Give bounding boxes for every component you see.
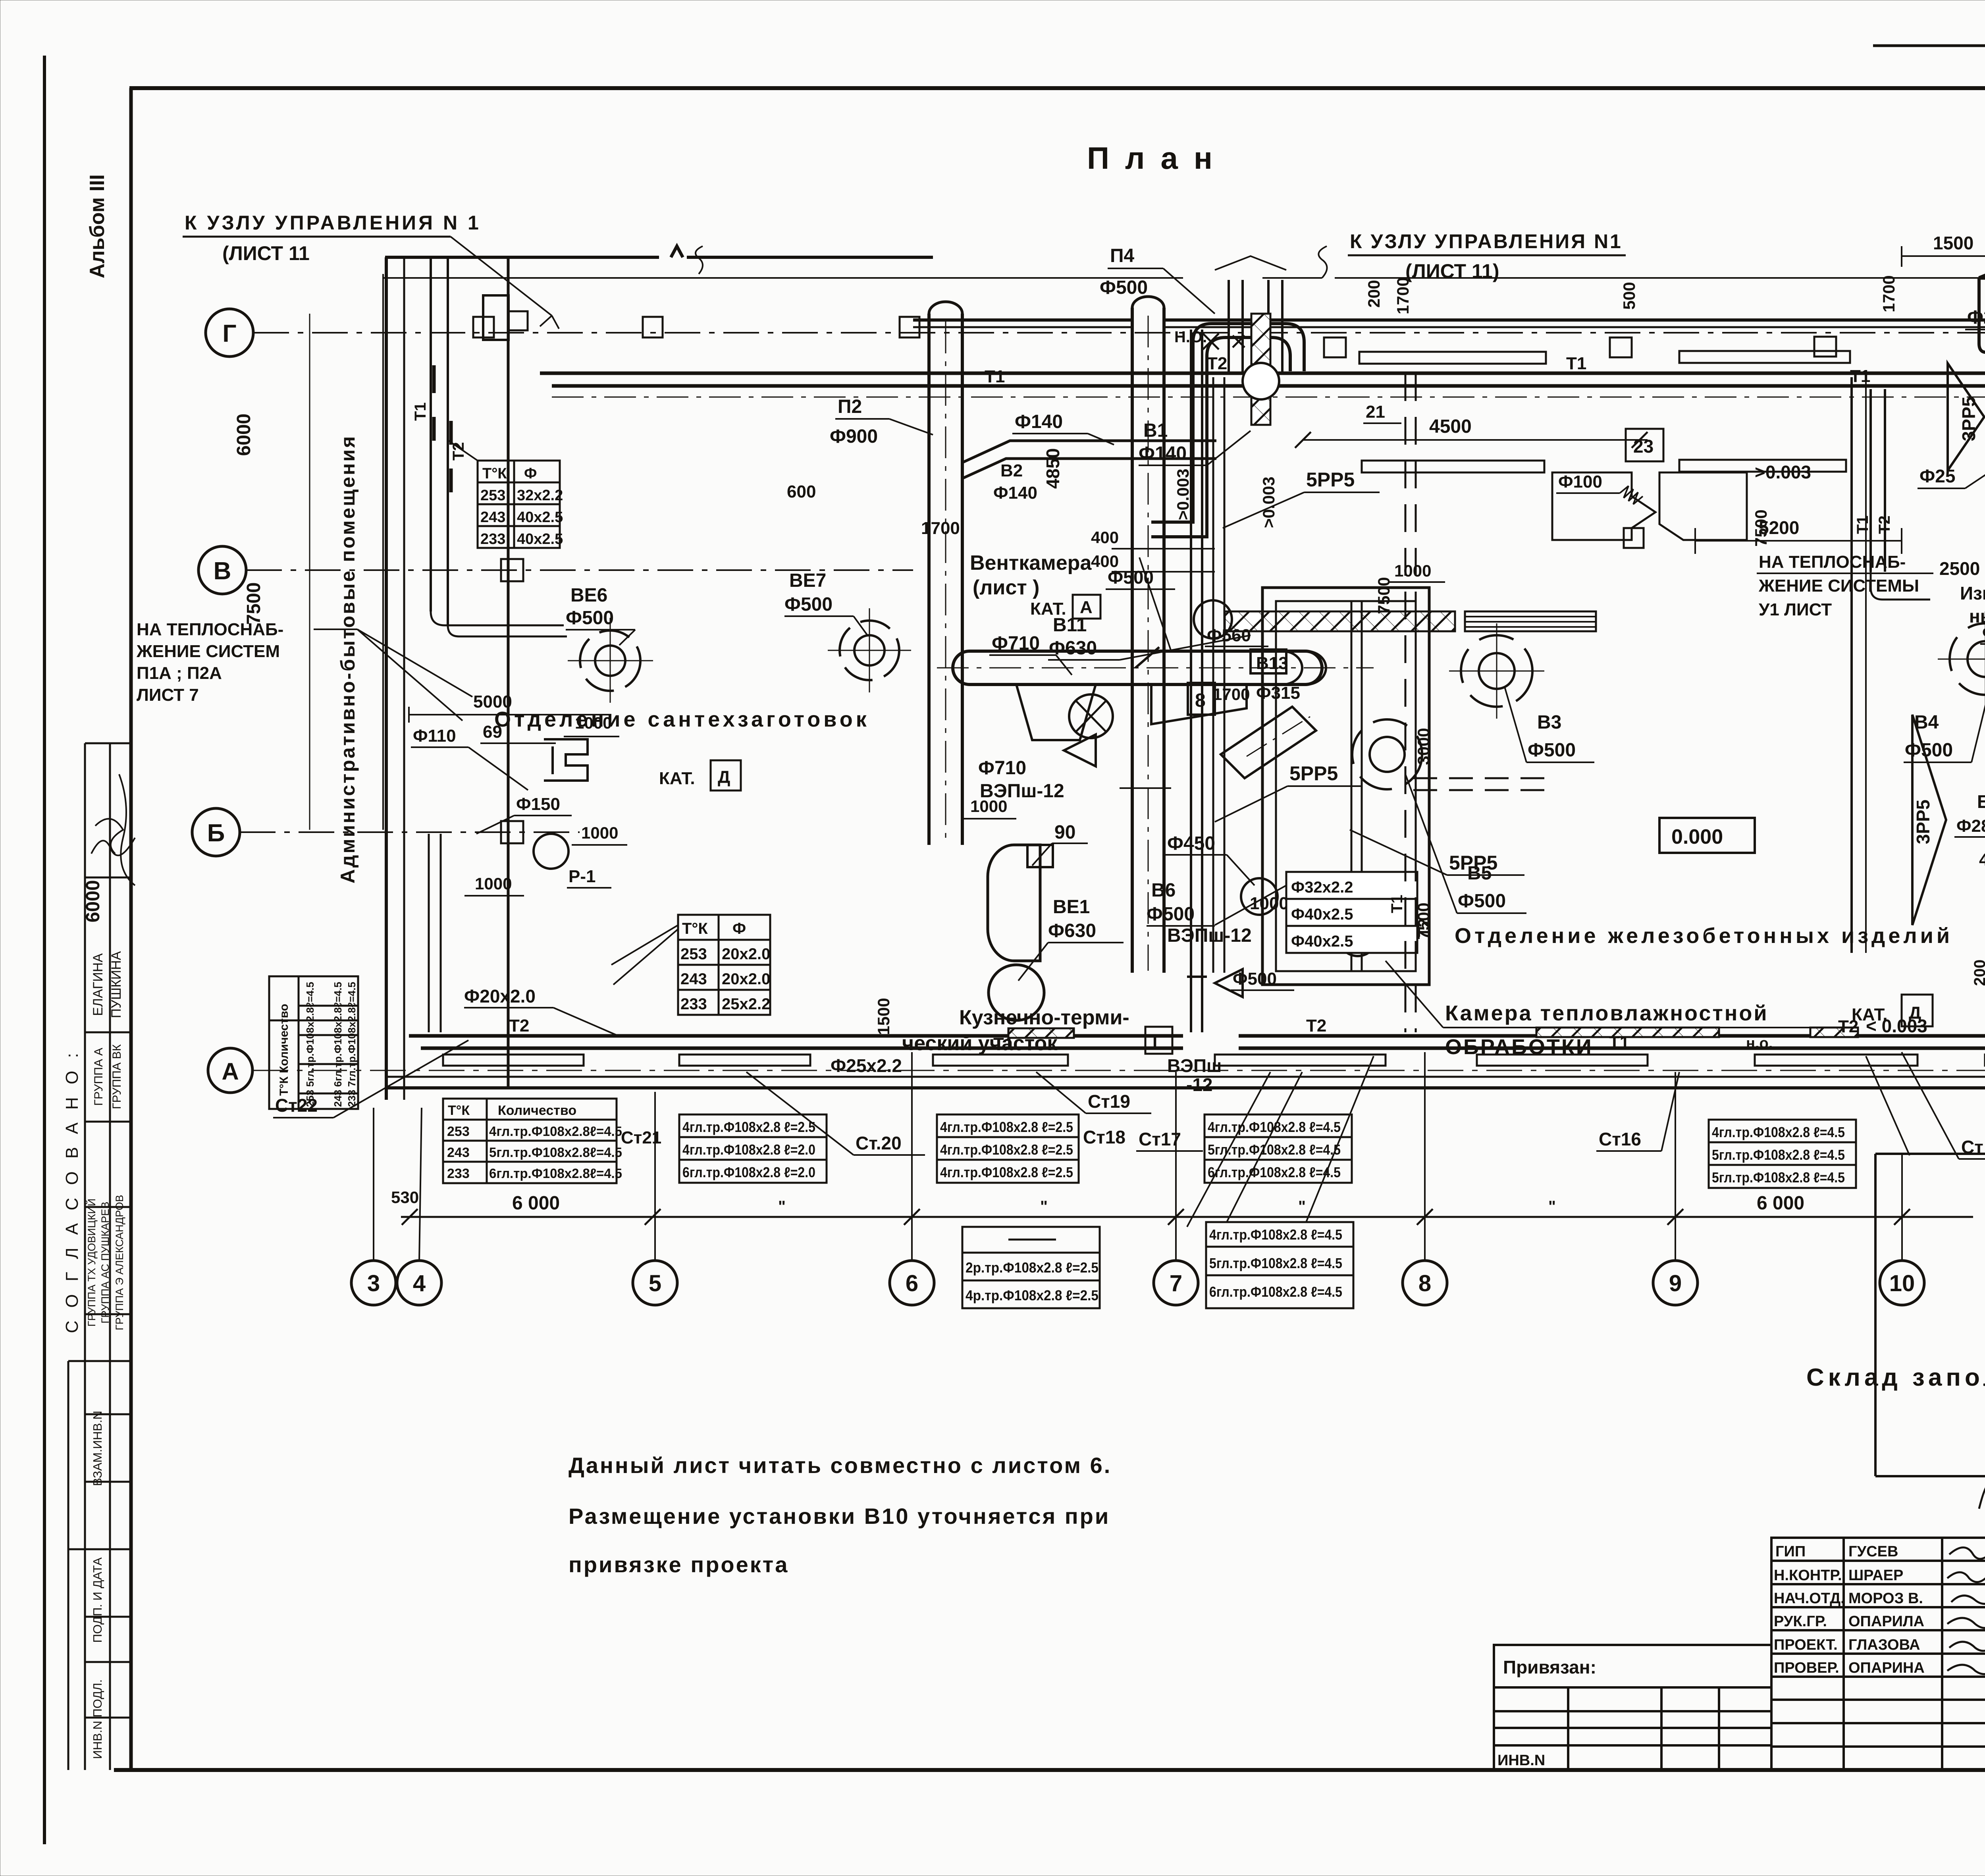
svg-text:Ст 15: Ст 15 bbox=[1961, 1137, 1985, 1157]
axis Б bbox=[192, 808, 240, 856]
V1 elbow pipe bbox=[1151, 324, 1304, 522]
svg-text:ПРОВЕР.: ПРОВЕР. bbox=[1774, 1660, 1839, 1676]
svg-text:НА ТЕПЛОСНАБ-: НА ТЕПЛОСНАБ- bbox=[137, 620, 283, 639]
svg-text:6гл.тр.Ф108х2.8 ℓ=4.5: 6гл.тр.Ф108х2.8 ℓ=4.5 bbox=[1209, 1284, 1342, 1300]
svg-text:Ф900: Ф900 bbox=[830, 426, 878, 447]
svg-text:ПОДП. И ДАТА: ПОДП. И ДАТА bbox=[91, 1557, 104, 1643]
svg-text:": " bbox=[1040, 1198, 1048, 1215]
svg-text:Ф450: Ф450 bbox=[1167, 833, 1215, 854]
svg-text:Ф500: Ф500 bbox=[1100, 277, 1148, 298]
svg-text:Т1: Т1 bbox=[985, 367, 1005, 386]
svg-text:Известегаситель-: Известегаситель- bbox=[1960, 583, 1985, 603]
svg-text:0.000: 0.000 bbox=[1671, 825, 1723, 848]
svg-text:8: 8 bbox=[1195, 690, 1206, 711]
svg-text:П4: П4 bbox=[1110, 245, 1135, 266]
svg-text:5000: 5000 bbox=[473, 692, 512, 711]
stamp signatures scribbles bbox=[91, 774, 135, 885]
svg-text:Венткамера: Венткамера bbox=[970, 551, 1092, 575]
svg-text:233: 233 bbox=[480, 531, 505, 548]
svg-text:П1А ; П2А: П1А ; П2А bbox=[137, 663, 222, 683]
table st20 bbox=[679, 1114, 827, 1183]
sheet inner frame bottom bbox=[114, 1768, 1985, 1772]
svg-text:>0.003: >0.003 bbox=[1174, 469, 1192, 520]
svg-text:1000: 1000 bbox=[581, 823, 618, 842]
svg-text:20х2.0: 20х2.0 bbox=[722, 970, 770, 988]
svg-text:7: 7 bbox=[1170, 1271, 1182, 1296]
table below st17 bbox=[1206, 1222, 1353, 1308]
axis circles bottom bbox=[351, 1261, 1924, 1305]
svg-text:КАТ.: КАТ. bbox=[1852, 1005, 1888, 1024]
svg-text:233: 233 bbox=[680, 995, 707, 1013]
svg-text:ЕЛАГИНА: ЕЛАГИНА bbox=[91, 953, 106, 1016]
wall right vertical bbox=[1850, 377, 1853, 953]
svg-text:Ф280: Ф280 bbox=[1967, 307, 1985, 328]
bottom radiators bbox=[443, 1055, 584, 1066]
building left wall bbox=[385, 257, 388, 1100]
svg-text:Т°К: Т°К bbox=[482, 465, 507, 482]
svg-text:5гл.тр.Ф108х2.8ℓ=4.5: 5гл.тр.Ф108х2.8ℓ=4.5 bbox=[489, 1145, 622, 1160]
svg-text:Г: Г bbox=[1152, 1032, 1162, 1051]
svg-text:Ф140: Ф140 bbox=[993, 483, 1037, 503]
axis leader lines bbox=[374, 1052, 1902, 1261]
svg-text:Н.О.: Н.О. bbox=[1174, 328, 1207, 346]
svg-text:1700: 1700 bbox=[1213, 685, 1250, 704]
0.000 box bbox=[1659, 818, 1755, 853]
vertical extension lines at left dims bbox=[309, 314, 310, 830]
table TK F 32x2.2 bbox=[478, 461, 560, 548]
svg-text:530: 530 bbox=[391, 1188, 419, 1207]
svg-text:3РР5: 3РР5 bbox=[1913, 800, 1933, 844]
svg-text:ЖЕНИЕ СИСТЕМЫ: ЖЕНИЕ СИСТЕМЫ bbox=[1758, 576, 1919, 596]
svg-text:8: 8 bbox=[1418, 1271, 1431, 1296]
svg-text:6гл.тр.Ф108х2.8ℓ=4.5: 6гл.тр.Ф108х2.8ℓ=4.5 bbox=[489, 1166, 622, 1181]
svg-text:Ф32х2.2: Ф32х2.2 bbox=[1291, 879, 1353, 896]
svg-text:КАТ.: КАТ. bbox=[659, 769, 695, 788]
svg-text:4850: 4850 bbox=[1043, 448, 1063, 489]
svg-text:В5: В5 bbox=[1467, 863, 1492, 884]
svg-text:Бетоносмеситель-: Бетоносмеситель- bbox=[1977, 791, 1985, 812]
svg-text:Ст22: Ст22 bbox=[275, 1095, 318, 1116]
hatched strips bottom bbox=[1008, 1028, 1074, 1038]
svg-text:Ф150: Ф150 bbox=[516, 794, 560, 814]
funnel below duct bbox=[1016, 684, 1096, 740]
svg-text:ГРУППА ТХ УДОВИЦКИЙ: ГРУППА ТХ УДОВИЦКИЙ bbox=[85, 1199, 98, 1327]
B13 F560 F315 bbox=[1251, 650, 1286, 673]
dashed long pipe mid bbox=[1413, 777, 1548, 779]
cone duct right bbox=[1151, 684, 1247, 724]
svg-text:В13: В13 bbox=[1256, 654, 1288, 673]
svg-text:Ф500: Ф500 bbox=[784, 594, 833, 615]
crane rail segments mid hall bbox=[1362, 461, 1544, 472]
svg-text:40х2.5: 40х2.5 bbox=[517, 509, 563, 526]
svg-text:6 000: 6 000 bbox=[512, 1193, 560, 1214]
svg-text:3000: 3000 bbox=[1414, 728, 1433, 765]
svg-text:Ст18: Ст18 bbox=[1083, 1127, 1125, 1147]
svg-text:ческий участок: ческий участок bbox=[902, 1032, 1058, 1055]
table TK F 20x2.0 bbox=[678, 915, 770, 1015]
svg-text:400: 400 bbox=[1091, 528, 1119, 547]
sheet outer left border bbox=[43, 56, 46, 1844]
svg-text:253: 253 bbox=[680, 945, 707, 963]
svg-text:Т2: Т2 bbox=[1306, 1016, 1326, 1035]
svg-text:В: В bbox=[214, 557, 231, 585]
T1 T2 risers dashed bbox=[1405, 373, 1407, 1032]
svg-text:5гл.тр.Ф108х2.8 ℓ=4.5: 5гл.тр.Ф108х2.8 ℓ=4.5 bbox=[1712, 1147, 1845, 1163]
bottom radiator band T2 T1 bbox=[409, 1034, 1183, 1038]
svg-text:Ф400: Ф400 bbox=[1982, 623, 1985, 642]
svg-text:К УЗЛУ УПРАВЛЕНИЯ N 1: К УЗЛУ УПРАВЛЕНИЯ N 1 bbox=[185, 212, 481, 234]
svg-text:200: 200 bbox=[1971, 960, 1985, 986]
title block: staff table bbox=[1771, 1538, 1985, 1770]
svg-text:ГУСЕВ: ГУСЕВ bbox=[1848, 1543, 1898, 1560]
svg-text:6000: 6000 bbox=[233, 414, 254, 456]
svg-text:1500: 1500 bbox=[874, 998, 893, 1035]
svg-text:Д: Д bbox=[1909, 1003, 1921, 1023]
axis А bbox=[208, 1048, 252, 1093]
svg-text:Т1: Т1 bbox=[1850, 366, 1870, 386]
vertical duct cluster bbox=[1190, 330, 1192, 1032]
svg-text:(лист ): (лист ) bbox=[973, 576, 1039, 599]
svg-text:Г: Г bbox=[222, 320, 236, 347]
svg-text:(ЛИСТ 11: (ЛИСТ 11 bbox=[222, 242, 310, 264]
svg-text:4гл.тр.Ф108х2.8ℓ=4.5: 4гл.тр.Ф108х2.8ℓ=4.5 bbox=[489, 1124, 622, 1139]
svg-text:3: 3 bbox=[367, 1271, 380, 1296]
svg-text:69: 69 bbox=[483, 722, 502, 742]
svg-text:10: 10 bbox=[1889, 1271, 1915, 1296]
svg-text:ИНВ.N: ИНВ.N bbox=[1497, 1752, 1545, 1769]
svg-text:Ф560: Ф560 bbox=[1207, 626, 1251, 645]
svg-text:привязке проекта: привязке проекта bbox=[569, 1552, 789, 1577]
svg-text:253 5гл.тр.Ф108х2.8ℓ=4.5: 253 5гл.тр.Ф108х2.8ℓ=4.5 bbox=[304, 982, 316, 1107]
table st16 bbox=[1204, 1114, 1352, 1183]
svg-text:В3: В3 bbox=[1537, 712, 1561, 733]
svg-text:Ст21: Ст21 bbox=[621, 1128, 661, 1147]
staff signatures bbox=[1947, 1483, 1985, 1674]
svg-text:ИНВ.N ПОДЛ.: ИНВ.N ПОДЛ. bbox=[91, 1679, 104, 1759]
diagonal conveyor bbox=[1221, 707, 1316, 778]
F710 horizontal duct bbox=[953, 651, 1322, 684]
svg-text:1000: 1000 bbox=[575, 713, 612, 732]
svg-text:ОПАРИЛА: ОПАРИЛА bbox=[1848, 1613, 1924, 1630]
svg-text:1700: 1700 bbox=[921, 519, 960, 538]
svg-text:П2: П2 bbox=[838, 396, 862, 417]
sklad room bbox=[1874, 1154, 1877, 1476]
axis В bbox=[198, 546, 246, 594]
svg-text:": " bbox=[1298, 1198, 1306, 1215]
svg-text:21: 21 bbox=[1366, 402, 1385, 422]
svg-text:32х2.2: 32х2.2 bbox=[517, 487, 563, 504]
svg-text:3РР5: 3РР5 bbox=[1958, 397, 1979, 442]
svg-text:6гл.тр.Ф108х2.8 ℓ=2.0: 6гл.тр.Ф108х2.8 ℓ=2.0 bbox=[682, 1164, 815, 1180]
svg-text:Ф100: Ф100 bbox=[1558, 472, 1602, 492]
svg-text:н.о.: н.о. bbox=[1746, 1035, 1773, 1052]
rotated table far left bbox=[269, 976, 358, 1109]
svg-text:Р-1: Р-1 bbox=[569, 867, 595, 886]
svg-text:243: 243 bbox=[480, 509, 505, 526]
upper radiators bbox=[1359, 352, 1546, 364]
svg-text:Привязан:: Привязан: bbox=[1503, 1657, 1596, 1677]
svg-text:6000: 6000 bbox=[83, 880, 104, 923]
svg-text:ВЗАМ.ИНВ.N: ВЗАМ.ИНВ.N bbox=[91, 1411, 104, 1486]
svg-text:4000: 4000 bbox=[1979, 850, 1985, 870]
svg-text:Ф: Ф bbox=[732, 920, 746, 937]
svg-text:А: А bbox=[222, 1058, 239, 1085]
svg-text:Альбом III: Альбом III bbox=[86, 174, 109, 278]
svg-text:>0.003: >0.003 bbox=[1259, 476, 1278, 528]
svg-text:Т1: Т1 bbox=[1854, 515, 1871, 534]
svg-text:Т1: Т1 bbox=[1609, 1033, 1629, 1052]
bottom dimension line bbox=[401, 1216, 1973, 1218]
svg-text:7500: 7500 bbox=[243, 582, 264, 625]
svg-text:1000: 1000 bbox=[475, 874, 512, 893]
svg-text:В6: В6 bbox=[1151, 880, 1176, 901]
duct P2 bbox=[927, 314, 931, 845]
svg-text:Кузнечно-терми-: Кузнечно-терми- bbox=[959, 1006, 1129, 1029]
svg-text:5РР5: 5РР5 bbox=[1306, 469, 1355, 491]
svg-text:2500: 2500 bbox=[1939, 558, 1980, 579]
svg-text:5: 5 bbox=[649, 1271, 661, 1296]
svg-text:ВЕ7: ВЕ7 bbox=[789, 570, 826, 591]
svg-text:Ф500: Ф500 bbox=[1458, 891, 1506, 912]
svg-text:253: 253 bbox=[480, 487, 505, 504]
svg-text:1700: 1700 bbox=[1393, 277, 1412, 314]
table st18 bbox=[937, 1114, 1079, 1183]
svg-text:Ст16: Ст16 bbox=[1599, 1129, 1641, 1149]
svg-text:1700: 1700 bbox=[1879, 275, 1898, 312]
svg-text:4гл.тр.Ф108х2.8 ℓ=2.5: 4гл.тр.Ф108х2.8 ℓ=2.5 bbox=[940, 1119, 1073, 1135]
svg-text:Количество: Количество bbox=[498, 1103, 576, 1118]
svg-text:(ЛИСТ 11): (ЛИСТ 11) bbox=[1405, 260, 1499, 282]
svg-text:7500: 7500 bbox=[1752, 509, 1770, 546]
svg-text:Ф40х2.5: Ф40х2.5 bbox=[1291, 933, 1353, 950]
svg-text:Административно-бытовые помещ: Административно-бытовые помещения bbox=[337, 435, 359, 884]
svg-text:Т°К: Т°К bbox=[682, 920, 708, 937]
hall big circles B3 B4 B5 bbox=[1461, 635, 1532, 707]
svg-text:НАЧ.ОТД.: НАЧ.ОТД. bbox=[1774, 1590, 1845, 1607]
svg-text:Ф280: Ф280 bbox=[1956, 816, 1985, 836]
svg-text:ЛИСТ 7: ЛИСТ 7 bbox=[137, 685, 199, 705]
svg-text:ГИП: ГИП bbox=[1775, 1543, 1806, 1560]
svg-text:25х2.2: 25х2.2 bbox=[722, 995, 770, 1013]
admin partition wall bbox=[507, 257, 510, 1088]
3RR5 cone 1 bbox=[1948, 363, 1984, 470]
F140 duct left from P2 bbox=[962, 441, 1216, 463]
svg-text:Т2: Т2 bbox=[509, 1016, 529, 1035]
svg-text:Ст19: Ст19 bbox=[1088, 1091, 1130, 1112]
svg-text:ГЛАЗОВА: ГЛАЗОВА bbox=[1848, 1637, 1920, 1653]
vent unit 90 / VE1 bbox=[988, 845, 1040, 961]
svg-text:40х2.5: 40х2.5 bbox=[517, 531, 563, 548]
svg-text:Т°К: Т°К bbox=[448, 1103, 470, 1118]
svg-text:20х2.0: 20х2.0 bbox=[722, 945, 770, 963]
kamera teplovlazhnostnoy box bbox=[1262, 588, 1429, 985]
svg-text:ОПАРИНА: ОПАРИНА bbox=[1848, 1660, 1925, 1676]
svg-text:Ф140: Ф140 bbox=[1015, 411, 1063, 432]
svg-text:Ф25х2.2: Ф25х2.2 bbox=[831, 1055, 902, 1076]
svg-text:Отделение железобетонных изд: Отделение железобетонных изделий bbox=[1455, 924, 1953, 948]
building top wall bbox=[385, 246, 933, 257]
wall column marks bbox=[473, 317, 494, 337]
svg-text:ЖЕНИЕ СИСТЕМ: ЖЕНИЕ СИСТЕМ bbox=[136, 642, 280, 661]
3RR5 cone 2 bbox=[1912, 715, 1946, 925]
svg-text:Б: Б bbox=[207, 819, 225, 847]
svg-text:ВЕ1: ВЕ1 bbox=[1053, 897, 1090, 918]
svg-text:4гл.тр.Ф108х2.8 ℓ=4.5: 4гл.тр.Ф108х2.8 ℓ=4.5 bbox=[1209, 1226, 1342, 1243]
svg-text:Ф710: Ф710 bbox=[978, 758, 1026, 779]
table F32x2.2 inside kamera bbox=[1286, 872, 1417, 953]
svg-text:1000: 1000 bbox=[1250, 894, 1289, 913]
svg-text:243: 243 bbox=[447, 1145, 470, 1160]
svg-text:РУК.ГР.: РУК.ГР. bbox=[1774, 1613, 1827, 1630]
svg-text:НА ТЕПЛОСНАБ-: НА ТЕПЛОСНАБ- bbox=[1759, 552, 1906, 572]
svg-text:Ф500: Ф500 bbox=[1147, 904, 1195, 925]
svg-text:5гл.тр.Ф108х2.8 ℓ=4.5: 5гл.тр.Ф108х2.8 ℓ=4.5 bbox=[1712, 1169, 1845, 1186]
svg-text:6 000: 6 000 bbox=[1757, 1193, 1804, 1214]
svg-text:4500: 4500 bbox=[1429, 416, 1472, 437]
svg-text:1000: 1000 bbox=[970, 797, 1007, 816]
svg-text:1500: 1500 bbox=[1933, 233, 1973, 253]
bottom wall lines bbox=[386, 1076, 1985, 1078]
svg-text:ВЭПш-12: ВЭПш-12 bbox=[1167, 925, 1252, 946]
svg-text:243: 243 bbox=[680, 970, 707, 988]
svg-text:253: 253 bbox=[447, 1124, 470, 1139]
svg-text:ГРУППА А: ГРУППА А bbox=[92, 1048, 105, 1106]
left stamp column lines bbox=[68, 743, 131, 1770]
svg-text:ПУШКИНА: ПУШКИНА bbox=[109, 951, 124, 1018]
axis Г bbox=[206, 309, 253, 357]
svg-text:6гл.тр.Ф108х2.8 ℓ=4.5: 6гл.тр.Ф108х2.8 ℓ=4.5 bbox=[1208, 1164, 1341, 1180]
svg-text:Камера тепловлажностной: Камера тепловлажностной bbox=[1445, 1001, 1769, 1025]
svg-text:243 6гл.тр.Ф108х2.8ℓ=4.5: 243 6гл.тр.Ф108х2.8ℓ=4.5 bbox=[332, 982, 344, 1107]
svg-text:Ф710: Ф710 bbox=[992, 633, 1040, 654]
svg-text:Склад заполнителей: Склад заполнителей bbox=[1806, 1364, 1985, 1391]
title block: privyazan box bbox=[1494, 1645, 1771, 1770]
svg-text:Ф40х2.5: Ф40х2.5 bbox=[1291, 906, 1353, 923]
svg-text:В11: В11 bbox=[1053, 615, 1087, 636]
svg-text:5гл.тр.Ф108х2.8 ℓ=4.5: 5гл.тр.Ф108х2.8 ℓ=4.5 bbox=[1208, 1141, 1341, 1158]
svg-text:Т1: Т1 bbox=[412, 402, 429, 421]
top heat mains T2 T1 bbox=[540, 372, 1985, 375]
svg-text:500: 500 bbox=[1620, 282, 1638, 310]
svg-text:23: 23 bbox=[1633, 436, 1654, 457]
svg-text:Ф: Ф bbox=[524, 465, 537, 482]
svg-text:4гл.тр.Ф108х2.8 ℓ=2.5: 4гл.тр.Ф108х2.8 ℓ=2.5 bbox=[682, 1119, 815, 1135]
svg-text:Т°К Количество: Т°К Количество bbox=[278, 1004, 291, 1096]
svg-text:600: 600 bbox=[787, 482, 816, 501]
svg-text:ГРУППА Э АЛЕКСАНДРОВ: ГРУППА Э АЛЕКСАНДРОВ bbox=[114, 1195, 125, 1330]
svg-text:К УЗЛУ УПРАВЛЕНИЯ N1: К УЗЛУ УПРАВЛЕНИЯ N1 bbox=[1350, 230, 1623, 253]
svg-text:": " bbox=[1548, 1198, 1556, 1215]
svg-text:ГРУППА АС ПУШКАРЕВ: ГРУППА АС ПУШКАРЕВ bbox=[99, 1202, 111, 1324]
svg-text:Данный лист читать совместн: Данный лист читать совместно с листом 6. bbox=[569, 1453, 1112, 1478]
svg-text:7500: 7500 bbox=[1414, 902, 1433, 939]
top right edge line bbox=[1873, 44, 1985, 47]
svg-text:Ф630: Ф630 bbox=[1048, 920, 1096, 941]
svg-text:4гл.тр.Ф108х2.8 ℓ=4.5: 4гл.тр.Ф108х2.8 ℓ=4.5 bbox=[1712, 1124, 1845, 1140]
svg-text:5гл.тр.Ф108х2.8 ℓ=4.5: 5гл.тр.Ф108х2.8 ℓ=4.5 bbox=[1209, 1255, 1342, 1271]
svg-text:ГРУППА ВК: ГРУППА ВК bbox=[110, 1044, 123, 1109]
horizontal line to top center bbox=[383, 277, 1183, 279]
svg-text:Ф500: Ф500 bbox=[1108, 567, 1154, 588]
svg-text:4р.тр.Ф108х2.8 ℓ=2.5: 4р.тр.Ф108х2.8 ℓ=2.5 bbox=[966, 1287, 1098, 1303]
svg-text:ПРОЕКТ.: ПРОЕКТ. bbox=[1774, 1637, 1838, 1653]
svg-text:": " bbox=[778, 1198, 786, 1215]
svg-text:90: 90 bbox=[1054, 822, 1075, 843]
svg-text:4: 4 bbox=[413, 1271, 426, 1296]
riser group top center bbox=[1228, 280, 1230, 373]
svg-text:МОРОЗ В.: МОРОЗ В. bbox=[1848, 1590, 1923, 1607]
svg-text:Ф110: Ф110 bbox=[413, 726, 456, 746]
svg-text:Н.КОНТР.: Н.КОНТР. bbox=[1774, 1567, 1842, 1584]
svg-text:Т1: Т1 bbox=[1566, 354, 1586, 373]
svg-text:233: 233 bbox=[447, 1166, 470, 1181]
svg-text:9: 9 bbox=[1669, 1271, 1682, 1296]
svg-text:Размещение установки В10 уто: Размещение установки В10 уточняется при bbox=[569, 1504, 1110, 1529]
svg-text:План: План bbox=[1087, 141, 1228, 175]
duct P4 bbox=[1131, 308, 1134, 973]
sheet inner frame top bbox=[129, 86, 1985, 90]
svg-text:4гл.тр.Ф108х2.8 ℓ=2.5: 4гл.тр.Ф108х2.8 ℓ=2.5 bbox=[940, 1141, 1073, 1158]
svg-text:Ф500: Ф500 bbox=[1528, 740, 1576, 761]
svg-text:ШРАЕР: ШРАЕР bbox=[1848, 1567, 1903, 1584]
svg-text:А: А bbox=[1080, 598, 1093, 617]
B7 duct elbow top bbox=[1979, 247, 1985, 278]
svg-text:С О Г Л А С О В А Н О :: С О Г Л А С О В А Н О : bbox=[62, 1049, 82, 1333]
svg-text:Ф20х2.0: Ф20х2.0 bbox=[464, 986, 536, 1006]
welding bench shapes bbox=[1552, 472, 1655, 540]
svg-text:-12: -12 bbox=[1186, 1074, 1212, 1095]
svg-text:Ф500: Ф500 bbox=[566, 607, 614, 629]
svg-text:Ст17: Ст17 bbox=[1139, 1129, 1181, 1149]
table 2r.tr bbox=[962, 1227, 1100, 1308]
svg-text:>0.003: >0.003 bbox=[1755, 462, 1811, 482]
svg-text:2р.тр.Ф108х2.8 ℓ=2.5: 2р.тр.Ф108х2.8 ℓ=2.5 bbox=[966, 1259, 1098, 1276]
svg-text:Ст.20: Ст.20 bbox=[856, 1133, 902, 1153]
svg-text:У1 ЛИСТ: У1 ЛИСТ bbox=[1759, 600, 1832, 619]
svg-text:Д: Д bbox=[718, 767, 730, 787]
svg-text:Отделение сантехзаготовок: Отделение сантехзаготовок bbox=[494, 708, 870, 731]
table mid right bbox=[1709, 1120, 1856, 1188]
svg-text:5РР5: 5РР5 bbox=[1289, 762, 1338, 785]
svg-text:6: 6 bbox=[906, 1271, 918, 1296]
hatched band near B11 bbox=[1225, 611, 1455, 631]
svg-text:В1: В1 bbox=[1143, 420, 1168, 441]
long diagonal leaders from radiator band to tables bbox=[1187, 1072, 1270, 1227]
svg-text:4гл.тр.Ф108х2.8 ℓ=2.5: 4гл.тр.Ф108х2.8 ℓ=2.5 bbox=[940, 1164, 1073, 1180]
sheet inner frame left bbox=[129, 88, 133, 1770]
svg-text:ВЕ6: ВЕ6 bbox=[570, 585, 607, 606]
svg-text:Т2: Т2 bbox=[1207, 354, 1227, 373]
left stamp rotated texts bbox=[62, 174, 125, 1759]
big TK kolichestvo table bbox=[443, 1099, 617, 1183]
svg-text:В2: В2 bbox=[1000, 461, 1023, 480]
svg-text:Т1: Т1 bbox=[1388, 895, 1406, 913]
svg-text:ОБРАБОТКИ: ОБРАБОТКИ bbox=[1445, 1035, 1593, 1059]
svg-text:200: 200 bbox=[1364, 280, 1383, 308]
svg-text:233 7гл.тр.Ф108х2.8ℓ=4.5: 233 7гл.тр.Ф108х2.8ℓ=4.5 bbox=[346, 982, 358, 1107]
svg-text:Ф140: Ф140 bbox=[1139, 443, 1187, 464]
svg-text:4гл.тр.Ф108х2.8 ℓ=2.0: 4гл.тр.Ф108х2.8 ℓ=2.0 bbox=[682, 1141, 815, 1158]
svg-text:1000: 1000 bbox=[1394, 561, 1431, 580]
admin corner duct stubs bbox=[483, 295, 509, 340]
